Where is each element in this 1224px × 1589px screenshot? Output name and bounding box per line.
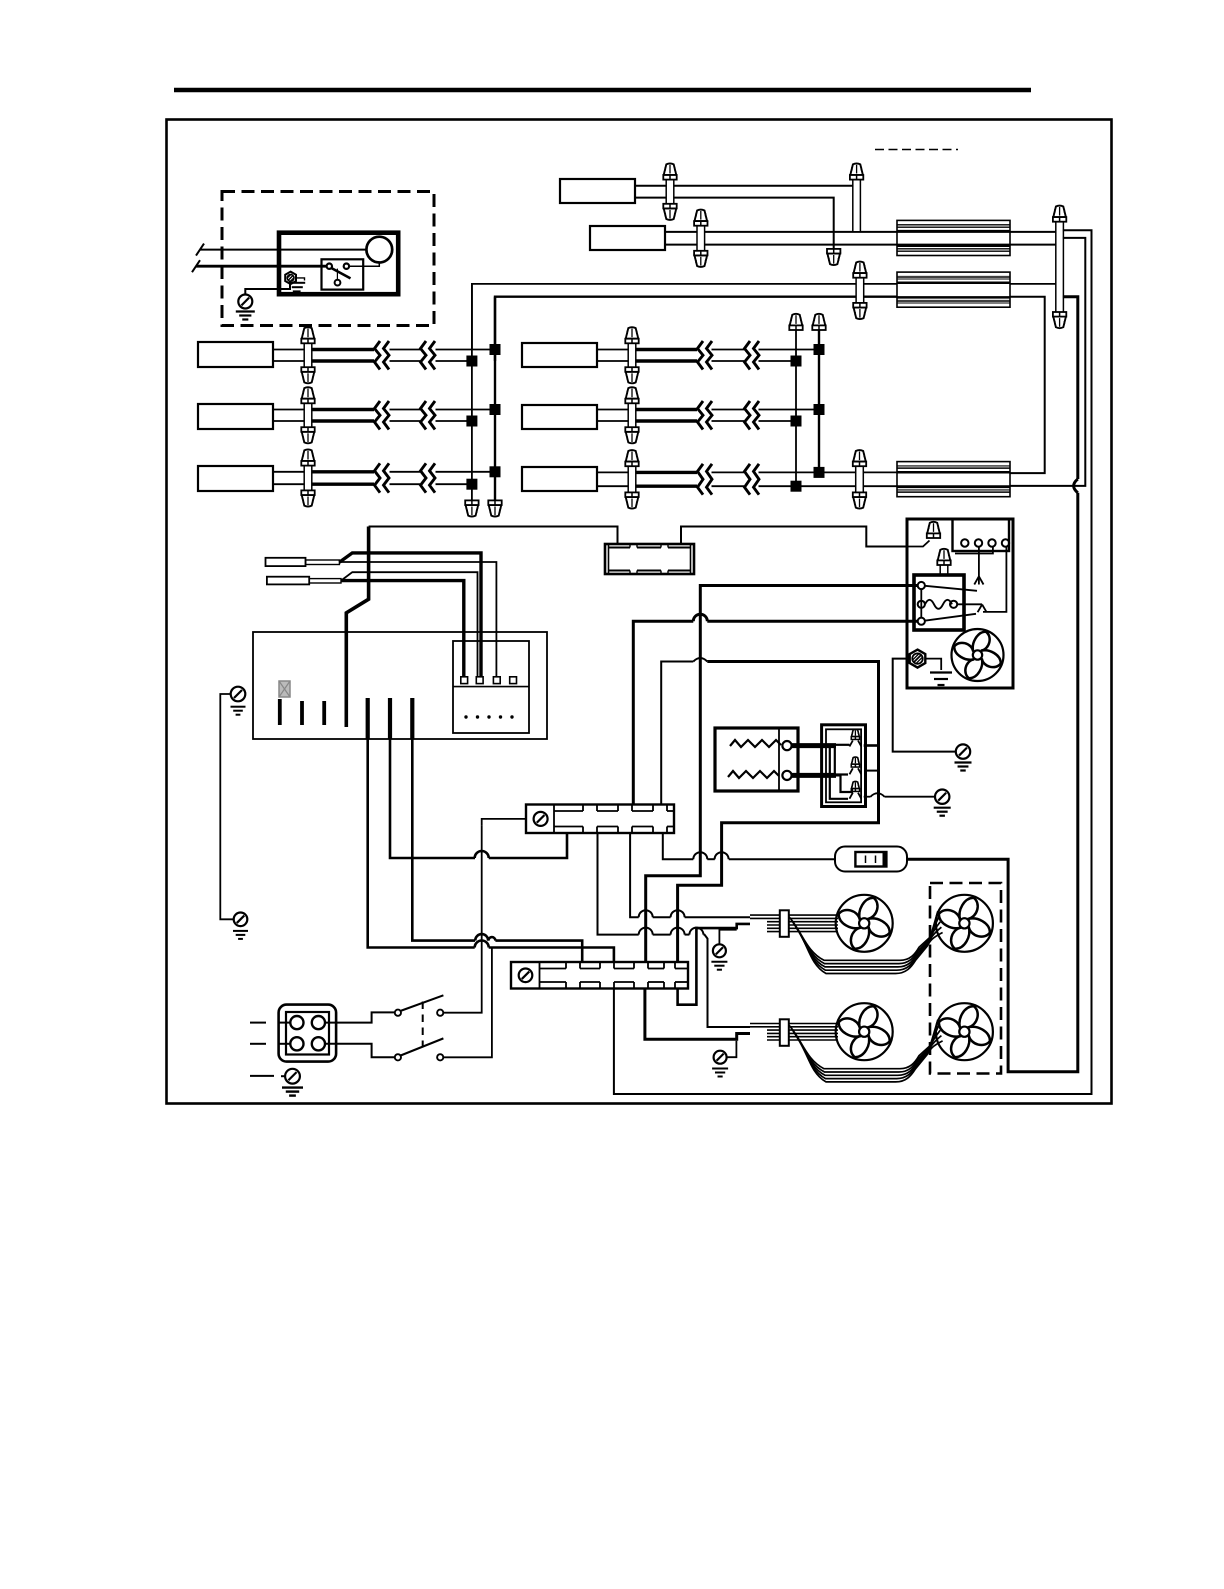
control board [253,632,547,739]
break symbol L1 b [421,341,427,370]
board pin P1 [366,698,370,739]
wire R3 bottom [597,485,632,487]
heater terminal 1 [782,741,791,750]
fan F3 [836,1003,893,1060]
wire L2 bottom [273,420,308,422]
wire B-bottom [665,244,1056,246]
junction L2 top [490,404,501,415]
switch pole1 out [443,826,481,1013]
break symbol L3 a [375,463,381,492]
bundle ground screw B1 [713,944,726,957]
inlet wire pole1 [325,1012,395,1022]
unit ground wire out [893,659,956,752]
wire bus2 to E2 [495,297,897,361]
heater connector block [822,725,866,807]
heater element 1 [730,740,781,747]
bundle 1 clamp [780,910,789,937]
board connector housing [453,641,529,733]
bus R2 top connector [813,314,826,326]
ground wire left run [220,694,234,919]
lower ground screw [234,913,248,927]
wire R1 bottom [597,360,632,362]
ground screw G2 [935,790,949,804]
sensor wire s2b thick [341,581,464,677]
relay contact circle 3 [918,618,925,625]
dashed compartment (power entry) [222,192,434,326]
relay circle link [920,589,922,618]
wire A-top [635,185,853,187]
fan F1 [836,895,893,952]
sensor S1 [266,558,306,566]
junction R2 top [814,404,825,415]
inlet circle 1 [290,1016,303,1029]
break symbol R2 a [698,401,704,430]
inlet circle 4 [312,1037,325,1050]
board ground symbol [231,706,246,708]
wire L3 bottom [273,483,308,485]
bus L1 end connector [466,505,479,517]
connector pair right [1056,222,1064,312]
condenser fan motor [952,629,1004,681]
inlet circle 2 [312,1016,325,1029]
label box R3 [522,467,597,491]
wire TS2 to bundle2 thick [645,989,750,1040]
terminal circle 1 [961,539,968,546]
heater divider [778,728,780,791]
thermostat control box [279,233,398,295]
sensor wire s2a [341,572,478,677]
board dot 3 [487,715,490,718]
bundle 1 loop to F2 [789,911,938,960]
TS1 screw [534,812,548,826]
connector bulb c1 [907,541,930,547]
wire E2 right run down to E3 [1010,297,1045,473]
relay wire 2 [707,620,917,623]
break symbol L2 a [375,401,381,430]
board connector pin 1 [461,677,468,684]
bus L2 end connector [489,505,502,517]
chassis ground symbol [236,310,255,312]
heater element 2 [728,771,779,778]
junction R3 bottom [791,481,802,492]
fuse symbol (x-box) [279,681,290,697]
connector on A wires [666,180,674,204]
board connector pin 2 [476,677,483,684]
rocker switch [835,847,907,872]
junction R3 top [814,467,825,478]
ground screw G1 [956,744,970,758]
wire C TS1 to bundle2 [598,833,639,935]
junction R2 bottom [791,416,802,427]
plug arrow 1 [978,547,980,585]
inlet stub 2 [250,1043,266,1045]
board ground screw [231,687,246,702]
junction R1 top [814,344,825,355]
break symbol L1 a [375,341,381,370]
board pin tick 1 [278,699,282,725]
bundle ground symbol B2 [712,1068,728,1070]
board connector pin 3 [493,677,500,684]
power inlet outer [279,1005,337,1062]
break symbol R2 b [745,401,751,430]
fan F2 [936,895,993,952]
TS2 screw [519,969,533,983]
bus R1 vertical [795,330,797,486]
strip1 riser to block [661,662,693,805]
dashed fan compartment [930,883,1001,1074]
switch blade [331,268,351,279]
relay wire 1 [646,586,918,963]
fan bundle 1 wires [750,914,838,916]
chassis ground screw [238,295,252,309]
wire B-top [665,231,1056,233]
sensor wire s1b [339,562,496,677]
break symbol R3 a [698,464,704,495]
junction L3 top [490,466,501,477]
connector row R3 [628,466,636,492]
TS1 wire to rocker [663,833,694,859]
heater wire 2 thick [792,773,836,778]
fan F4 [936,1003,993,1060]
wire pair to E3 via right riser [1010,238,1085,486]
inlet ground screw [285,1069,300,1084]
indicator lamp circle [366,237,392,263]
break symbol L2 b [421,401,427,430]
bundle ground wire B1 [719,930,736,945]
block internal wire 2 [835,747,848,775]
ground symbol G2 [934,807,951,809]
switch contact left [327,264,332,269]
inlet circle 3 [290,1037,303,1050]
wire E2 to pair [1010,283,1056,285]
thick feeder to rocker switch [1063,297,1078,479]
ground symbol G1 [955,761,972,763]
connector pair at A junction [853,180,861,231]
wire R1 top [597,349,632,351]
junction L1 bottom [466,356,477,367]
connector row R1 [628,343,636,367]
connector row R2 [628,403,636,427]
internal screw terminal [285,272,296,285]
break symbol R1 a [698,341,704,370]
junction L1 top [490,344,501,355]
wire R2 top [597,409,632,411]
bus L1 vertical [471,284,473,501]
main harness thick wire [346,527,368,728]
wire splice to condenser box [681,527,907,547]
supply wire L [200,249,366,251]
terminal wire t3 [955,547,993,554]
label box B [590,226,665,250]
switch pole2 [395,1054,401,1060]
wire L1 top [273,349,308,351]
bundle ground wire B2 [727,1041,737,1058]
label box R2 [522,405,597,429]
bundle 2 loop to F4 [789,1020,938,1069]
splice block [605,544,694,574]
block link tap 2 [865,770,878,772]
board dot 5 [510,715,513,718]
inlet ground dash [250,1075,274,1077]
connector row L3 [304,466,312,491]
block bulb 3 [851,781,859,788]
wire L3 top [273,471,308,473]
relay box [914,575,964,630]
block ground wire [864,796,871,798]
bundle ground screw B2 [714,1051,727,1064]
terminal circle 4 [1002,539,1009,546]
terminal strip TS1 [526,805,674,834]
terminal block [953,519,1010,551]
TS1 screw wire [482,819,526,826]
pin wire P2 run [390,739,475,858]
wire A TS1 to bundle1 [630,833,639,917]
connector on E2 feed wires [856,278,864,303]
relay blade 2 [926,614,977,621]
switch contact bottom [335,280,341,286]
board dot 4 [499,715,502,718]
switch contact right [344,264,349,269]
relay coil [925,600,952,609]
heater terminal 2 [782,771,791,780]
block bulb 2 [851,757,859,764]
inlet stub 1 [250,1022,266,1024]
element box E1 [897,220,1010,255]
power inlet inner [286,1012,329,1055]
board connector pin 4 [510,677,517,684]
wire A-bottom [635,198,834,250]
board dot 2 [476,715,479,718]
break symbol R1 b [745,341,751,370]
wire R2 bottom [597,420,632,422]
junction R1 bottom [791,356,802,367]
relay blade 1 [925,586,977,591]
switch pole1 [395,1010,401,1016]
label box L1 [198,342,273,367]
junction L2 bottom [466,416,477,427]
wire R3 top [597,471,632,473]
element box E2 [897,272,1010,307]
connector row L2 [304,403,312,427]
pin wire P3 run [412,739,475,941]
bundle 2 clamp [780,1019,789,1046]
connector bulb c2 [940,565,948,576]
plug arrow 2 [983,547,1006,612]
fan bundle 2 wires [750,1023,838,1025]
page top rule [174,88,1031,93]
bundle ground symbol B1 [711,961,727,963]
label box R1 [522,343,597,367]
bus R1 top connector [790,314,803,326]
label box L2 [198,404,273,429]
unit ground symbol [926,659,942,670]
board pin P2 [388,698,392,739]
board dot 1 [464,715,467,718]
relay contact circle 1 [918,582,925,589]
wire B TS2 loop to bundle1 [678,924,750,1005]
label box A [560,179,635,203]
connector row L1 [304,343,312,367]
sensor S2 [267,577,309,585]
block internal wire 4 [836,775,852,792]
condenser unit box [907,519,1013,688]
lower ground symbol [233,930,248,932]
connector pair row3 [856,466,864,492]
break symbol L3 b [421,463,427,492]
wire bus1 to E2 [472,284,897,350]
label box L3 [198,466,273,491]
break symbol R3 b [745,464,751,495]
end connector A-bottom [827,254,840,266]
connector on B wires [697,226,705,251]
wire main to splice [369,527,618,545]
wire switch to lamp [349,263,379,267]
internal ground symbol [296,278,304,281]
bus L2 vertical [494,297,496,501]
dashed label line [875,149,958,151]
outer enclosure box [167,120,1112,1104]
inlet wire pole2 [325,1044,395,1058]
bus R2 vertical [818,330,820,472]
block link tap 1 [864,744,879,747]
switch link dashed [422,1002,424,1048]
wire L1 bottom [273,360,308,362]
terminal strip TS2 [511,962,688,989]
coil output wire [957,603,982,605]
unit ground screw [910,650,926,668]
ground wire to chassis screw [245,281,290,295]
terminal circle 3 [988,539,995,546]
heater wire 1 thick [792,743,836,748]
junction L3 bottom [466,479,477,490]
pin wire P1 run [368,739,475,948]
element box E3 [897,462,1010,497]
block bulb 1 [851,729,859,736]
block internal wire 3 [830,747,848,799]
block internal wire 1 [836,744,850,746]
wire L2 top [273,409,308,411]
inlet ground symbol [282,1086,303,1088]
board pin P3 [410,698,414,739]
heater box [715,728,798,791]
wire pair to bottom bus run [614,230,1092,1094]
board pin tick 2 [300,701,304,725]
supply wire N [196,265,327,268]
terminal circle 2 [975,539,982,546]
relay contact circle 2 [918,601,925,608]
sensor wire s1a thick [339,553,481,677]
switch sub-box [322,259,364,289]
switch pole2 out [443,948,492,1058]
board pin tick 3 [322,701,326,725]
